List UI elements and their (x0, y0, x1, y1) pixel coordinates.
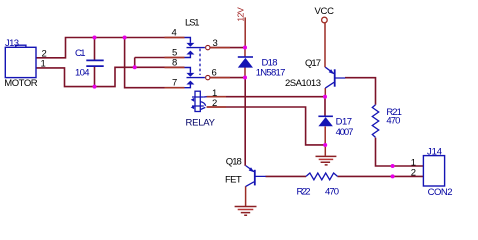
resistor R21 (372, 105, 378, 138)
junction dot top rail C1 (93, 36, 97, 40)
svg-text:1N5817: 1N5817 (256, 67, 286, 78)
wire Q17 base to R21 (345, 78, 376, 105)
junction dot rail pin6 (243, 76, 247, 80)
junction dot J14 pin2 wire (391, 174, 395, 178)
svg-text:2: 2 (411, 168, 416, 179)
wire pin7 feed from top rail (125, 38, 185, 88)
svg-text:FET: FET (225, 174, 242, 185)
relay contact B pivot circle pin6 (206, 75, 210, 79)
wire rail down to Q18 emitter (244, 78, 246, 166)
transistor Q17 (334, 69, 336, 86)
wire net J13.1 bottom rail to relay pin8 (36, 67, 185, 86)
wire relay pin3 to 12V rail (210, 47, 245, 49)
relay coil left arrows (191, 98, 195, 109)
relay pin stubs bright overdraw (165, 38, 231, 108)
svg-text:4007: 4007 (336, 127, 354, 138)
wire Q18 right lead to R22 (266, 175, 307, 177)
svg-text:LS1: LS1 (185, 18, 200, 29)
junction dot coil pin1 Q17 collector (323, 95, 327, 99)
svg-text:104: 104 (75, 68, 90, 79)
svg-text:1: 1 (41, 59, 46, 70)
relay mechanical link dashed (199, 49, 201, 75)
wire C1 top stem (94, 38, 96, 61)
relay coil RELAY (192, 91, 207, 111)
ground below D17 (316, 156, 337, 165)
svg-text:8: 8 (172, 57, 177, 68)
power port VCC (322, 17, 328, 23)
svg-text:3: 3 (213, 38, 218, 49)
junction dot 12V rail pin3 (243, 46, 247, 50)
wire R22 to J14 pin2 (338, 175, 424, 177)
wire relay coil pin1 net to Q17/D17 (207, 97, 325, 116)
svg-text:2SA1013: 2SA1013 (285, 78, 321, 89)
relay contact set A pin4 lead (185, 38, 191, 43)
svg-text:Q17: Q17 (305, 58, 321, 69)
transistor Q18 (254, 170, 256, 186)
wire VCC stem to Q17 emitter (324, 23, 326, 67)
junction dot top rail pin7 feed (123, 36, 127, 40)
relay contact A up arrow (186, 51, 194, 55)
svg-text:7: 7 (172, 78, 177, 89)
ground below Q18 (235, 207, 257, 216)
relay contact set B pin8 lead (185, 68, 191, 73)
wire D18 pins (244, 48, 246, 78)
diode D17 (318, 115, 333, 117)
wire net J13.2 to relay pin4 (top rail) (36, 38, 185, 58)
wire pin5 feed (135, 58, 185, 68)
svg-text:2: 2 (212, 98, 217, 109)
wire relay coil pin2 net to ground node (207, 107, 325, 145)
relay contact B common line (187, 77, 205, 79)
svg-text:C1: C1 (75, 48, 86, 59)
relay contact B pin7 lead (185, 85, 191, 88)
diode D18 (238, 56, 253, 58)
svg-text:12V: 12V (236, 7, 246, 22)
connector J14 (423, 156, 444, 186)
capacitor C1 (86, 60, 103, 66)
Q18 emitter arrowhead (249, 167, 255, 172)
svg-text:470: 470 (325, 187, 339, 198)
wire Q17 collector down (324, 88, 326, 97)
junction dot D17 ground node (323, 143, 327, 147)
wire D17 bottom pin (324, 127, 326, 146)
svg-text:Q18: Q18 (226, 156, 242, 167)
svg-text:CON2: CON2 (428, 187, 453, 198)
svg-text:J13: J13 (5, 38, 19, 49)
Q17 emitter arrowhead (329, 69, 335, 74)
junction dot bottom rail C1 (93, 85, 97, 89)
connector J13 (5, 45, 36, 77)
svg-text:470: 470 (386, 116, 400, 127)
junction dot J14 pin1 wire (391, 164, 395, 168)
relay contact B down arrow (186, 73, 194, 77)
svg-text:J14: J14 (427, 146, 442, 157)
relay contact A common line (187, 47, 205, 49)
relay contact A down arrow (186, 43, 194, 47)
wire ground stem below D17 node (324, 145, 326, 156)
svg-text:VCC: VCC (315, 6, 335, 17)
wire C1 bottom stem (94, 66, 96, 86)
relay contact A pin5 lead (185, 55, 191, 58)
junction dot pin5/pin8 (133, 65, 137, 69)
resistor R22 (306, 173, 338, 180)
svg-text:1: 1 (212, 88, 217, 99)
svg-text:MOTOR: MOTOR (4, 78, 37, 89)
wire relay pin6 to rail (210, 77, 245, 79)
wire R21 bottom to J14 pin1 (376, 138, 424, 166)
svg-text:6: 6 (212, 67, 217, 78)
svg-text:R22: R22 (297, 187, 311, 198)
relay contact B up arrow (186, 81, 194, 85)
svg-text:RELAY: RELAY (186, 118, 216, 129)
relay contact A pivot circle pin3 (206, 45, 210, 49)
wire Q18 collector to ground (245, 186, 247, 206)
wire 12V stem (244, 17, 246, 47)
svg-text:4: 4 (172, 27, 177, 38)
